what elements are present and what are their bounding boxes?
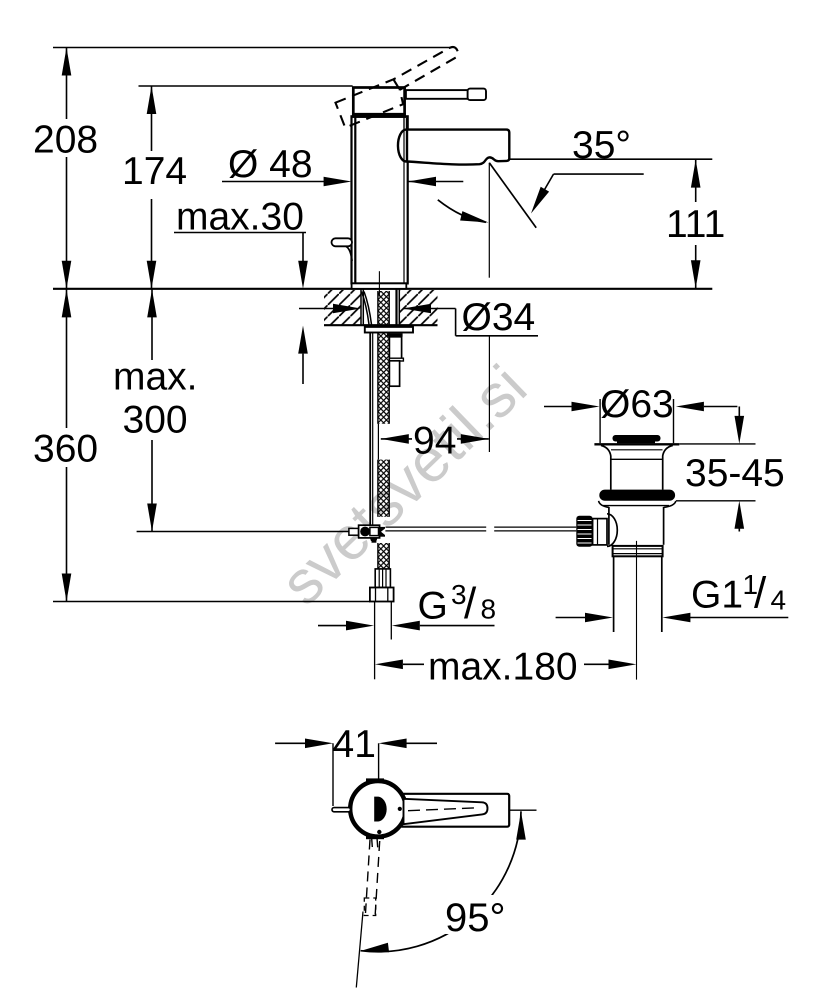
svg-text:8: 8 — [481, 594, 497, 625]
svg-text:1: 1 — [743, 569, 759, 600]
svg-text:max.30: max.30 — [176, 196, 304, 239]
svg-text:35-45: 35-45 — [685, 452, 785, 495]
svg-text:94: 94 — [413, 420, 456, 463]
svg-text:G: G — [418, 585, 448, 628]
svg-text:95°: 95° — [445, 896, 506, 940]
svg-text:111: 111 — [666, 203, 725, 246]
svg-text:360: 360 — [33, 428, 98, 471]
svg-text:208: 208 — [33, 119, 98, 162]
svg-text:174: 174 — [122, 150, 187, 193]
svg-text:3: 3 — [451, 579, 467, 610]
svg-text:Ø63: Ø63 — [600, 383, 674, 426]
svg-text:G1: G1 — [691, 574, 743, 617]
svg-text:Ø34: Ø34 — [462, 296, 536, 339]
svg-text:max.: max. — [113, 356, 198, 399]
svg-text:4: 4 — [771, 585, 787, 616]
svg-text:35°: 35° — [572, 124, 631, 167]
svg-text:max.180: max.180 — [428, 646, 578, 689]
svg-text:41: 41 — [333, 723, 376, 766]
svg-text:300: 300 — [123, 399, 188, 442]
svg-text:Ø 48: Ø 48 — [228, 143, 313, 186]
